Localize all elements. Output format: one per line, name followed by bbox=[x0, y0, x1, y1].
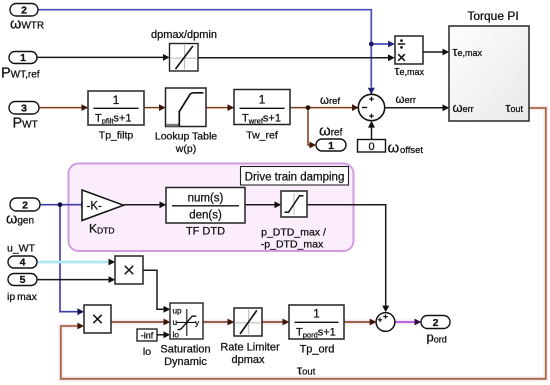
wire Rate Limiter to Tp_ord bbox=[262, 319, 289, 326]
svg-text:1: 1 bbox=[313, 307, 320, 321]
wire ωgen (navy) port2 to gain, branch down to product2 bbox=[40, 201, 88, 315]
saturation dynamic block bbox=[160, 303, 210, 368]
svg-text:Torque PI: Torque PI bbox=[467, 9, 518, 23]
label u_WT bbox=[7, 243, 36, 255]
svg-text:τout: τout bbox=[297, 363, 316, 378]
svg-text:Saturation: Saturation bbox=[160, 344, 210, 356]
sum1 circle bbox=[358, 94, 384, 120]
wire TF DTD to saturation bbox=[245, 201, 281, 208]
svg-text:Rate Limiter: Rate Limiter bbox=[220, 342, 280, 354]
wire u_WT (cyan) port4 to product1 bbox=[37, 259, 115, 266]
svg-text:1: 1 bbox=[20, 52, 26, 64]
wire TF2 to sum1 (ωref) with branch to out port 1 bbox=[290, 104, 359, 148]
out port 1 ωref bbox=[316, 123, 346, 152]
svg-text:-K-: -K- bbox=[87, 201, 103, 213]
wire ωWTR (blue) from port 2 to divide and sum bbox=[38, 10, 395, 95]
input port 1 PWT,ref bbox=[1, 52, 40, 82]
svg-text:TF DTD: TF DTD bbox=[186, 226, 225, 238]
svg-text:ωref: ωref bbox=[320, 95, 340, 107]
svg-text:lo: lo bbox=[173, 331, 180, 340]
svg-text:-inf: -inf bbox=[141, 330, 154, 340]
svg-text:offset: offset bbox=[400, 145, 423, 156]
svg-text:2: 2 bbox=[21, 5, 27, 17]
svg-text:1: 1 bbox=[113, 93, 120, 107]
label τout (bottom) bbox=[297, 363, 316, 378]
svg-text:p_DTD_max /: p_DTD_max / bbox=[261, 227, 326, 239]
lookup table w(p) bbox=[155, 88, 217, 155]
gain KDTD bbox=[82, 190, 124, 236]
label ipmax bbox=[7, 291, 38, 303]
wire halo (feedback glow) bbox=[61, 108, 546, 379]
constant -inf bbox=[137, 329, 157, 358]
svg-text:Tp_filtp: Tp_filtp bbox=[99, 130, 134, 142]
label box Drive train damping bbox=[241, 167, 349, 186]
svg-text:1: 1 bbox=[328, 140, 334, 152]
svg-text:3: 3 bbox=[21, 102, 27, 114]
input port 2 ωWTR bbox=[10, 4, 44, 33]
input port 2 ωgen bbox=[6, 198, 40, 228]
Torque PI subsystem block bbox=[449, 9, 529, 121]
product2 (ωgen × τout) bbox=[84, 305, 111, 333]
svg-text:Lookup Table: Lookup Table bbox=[155, 131, 217, 143]
svg-text:ipmax: ipmax bbox=[7, 291, 38, 303]
svg-text:Drive train damping: Drive train damping bbox=[245, 172, 345, 184]
wire sum2 to out port 2 (purple) bbox=[395, 319, 421, 326]
sum2 circle bbox=[376, 313, 395, 332]
wire -inf to Saturation Dynamic lo bbox=[157, 331, 170, 338]
wire lookup to TF2 bbox=[206, 104, 234, 111]
svg-text:lo: lo bbox=[143, 346, 151, 358]
subsystem region Drive train damping (pink area) bbox=[69, 164, 354, 252]
input port 3 PWT bbox=[9, 102, 39, 132]
svg-text:ωgen: ωgen bbox=[6, 212, 34, 228]
transfer fcn TF DTD bbox=[166, 188, 245, 238]
wire product2 to Saturation Dynamic u bbox=[111, 319, 170, 326]
svg-text:4: 4 bbox=[20, 257, 26, 269]
wire sum1 to Torque PI (ωerr) bbox=[385, 104, 449, 111]
svg-text:1: 1 bbox=[259, 93, 266, 107]
svg-text:den(s): den(s) bbox=[189, 210, 222, 222]
junction dot ωgen branch bbox=[58, 202, 63, 207]
wire ipmax port5 to product1 bbox=[37, 276, 115, 283]
wire PWT,ref (black) port1 to rate limiter to divide bbox=[37, 54, 395, 61]
svg-text:dpmax/dpmin: dpmax/dpmin bbox=[151, 29, 217, 41]
out port 2 p_ord bbox=[421, 316, 450, 345]
saturation p_DTD_max bbox=[261, 191, 326, 251]
svg-text:u_WT: u_WT bbox=[7, 243, 36, 255]
svg-text:num(s): num(s) bbox=[188, 193, 224, 205]
svg-text:Tpfilts+1: Tpfilts+1 bbox=[95, 113, 131, 126]
wire saturation DTD to sum2 (down right side) bbox=[307, 205, 389, 312]
junction dot on blue wire bbox=[369, 42, 374, 47]
svg-text:ωWTR: ωWTR bbox=[10, 17, 44, 33]
svg-text:Tp_ord: Tp_ord bbox=[300, 344, 335, 356]
svg-text:PWT,ref: PWT,ref bbox=[1, 66, 40, 82]
wire PWT (dark red) port3 to TF1 bbox=[39, 104, 88, 111]
wire product1 to Saturation Dynamic up bbox=[143, 270, 170, 312]
wire divide to Torque PI (τe,max) bbox=[423, 49, 449, 56]
input port 5 bbox=[8, 274, 37, 287]
svg-text:2: 2 bbox=[22, 199, 28, 211]
svg-text:Tw_ref: Tw_ref bbox=[246, 130, 278, 142]
transfer fcn Tp_ord bbox=[289, 305, 344, 356]
svg-text:ωerr: ωerr bbox=[396, 94, 417, 106]
transfer fcn Tp_filtp bbox=[88, 91, 144, 142]
wire ω offset const to sum1 bbox=[368, 121, 375, 140]
svg-text:Dynamic: Dynamic bbox=[164, 356, 207, 368]
wire τout feedback from Torque PI around bottom to product2 bbox=[61, 108, 546, 379]
divide block τe,max bbox=[395, 36, 425, 78]
svg-text:PWT: PWT bbox=[13, 116, 38, 132]
label ωerr (on wire) bbox=[396, 94, 417, 106]
wire gain to TF DTD bbox=[124, 201, 167, 208]
wire Saturation Dynamic to Rate Limiter bbox=[203, 319, 234, 326]
svg-text:τe,max: τe,max bbox=[395, 64, 425, 78]
svg-text:-p_DTD_max: -p_DTD_max bbox=[261, 239, 324, 251]
svg-text:τout: τout bbox=[506, 101, 524, 115]
constant 0 (ω offset) bbox=[358, 140, 424, 157]
rate limiter dpmax/dpmin bbox=[151, 29, 217, 71]
svg-text:2: 2 bbox=[433, 317, 439, 329]
svg-text:ωref: ωref bbox=[319, 123, 343, 140]
wire TF1 to lookup bbox=[144, 104, 166, 111]
svg-text:5: 5 bbox=[20, 274, 26, 286]
svg-text:up: up bbox=[173, 307, 183, 316]
svg-text:0: 0 bbox=[368, 141, 374, 153]
svg-text:w(p): w(p) bbox=[175, 143, 196, 155]
label ωref (on wire) bbox=[320, 95, 340, 107]
svg-text:dpmax: dpmax bbox=[231, 354, 265, 366]
svg-text:pord: pord bbox=[427, 330, 447, 345]
rate limiter dpmax bbox=[220, 308, 280, 366]
transfer fcn Tw_ref bbox=[234, 90, 290, 142]
svg-text:ω: ω bbox=[388, 140, 400, 157]
product1 (u_WT × ipmax) bbox=[115, 256, 143, 284]
svg-text:τe,max: τe,max bbox=[453, 45, 483, 59]
input port 4 bbox=[8, 256, 37, 269]
junction dot ωref branch bbox=[306, 105, 311, 110]
wire Tp_ord to sum2 bbox=[344, 319, 376, 326]
